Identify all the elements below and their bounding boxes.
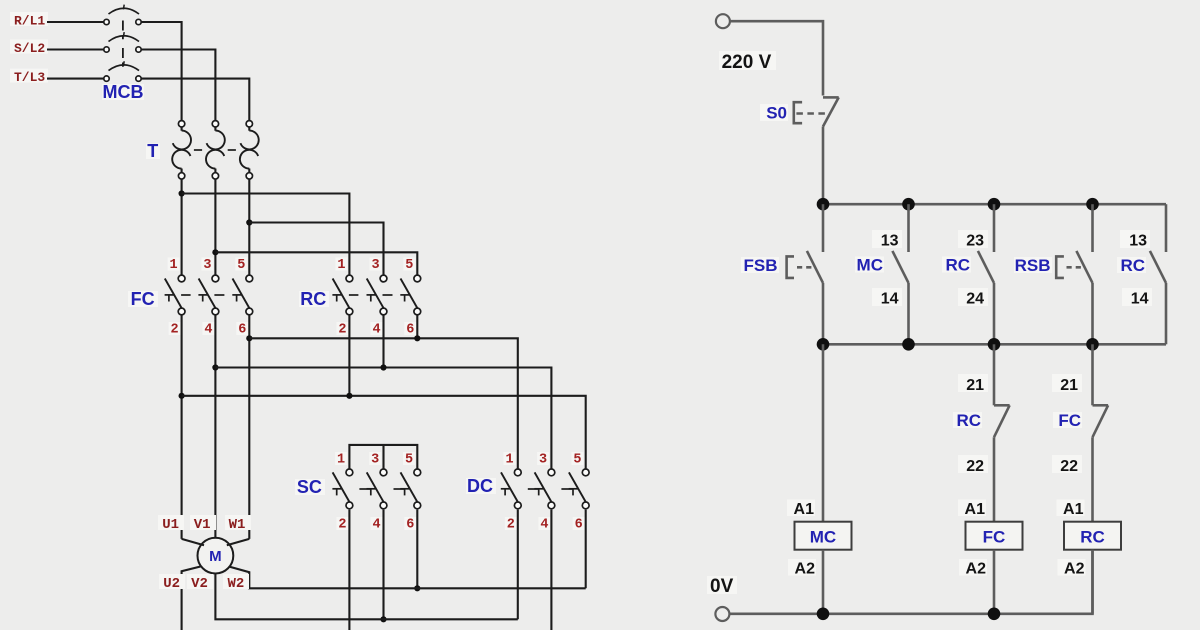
delta contactor DC label (466, 478, 496, 494)
node bus1 RSB (1086, 198, 1099, 211)
pin label A1 (RC) (1057, 500, 1085, 517)
wire auxiliary contact RC 13-14 lower (1165, 283, 1168, 344)
contactor DC pole 2 actuator tick (534, 488, 543, 490)
wire T/L3 MCB output (141, 79, 249, 121)
wire phase 3 down to FC pole 3 (248, 179, 250, 275)
overload relay T label (146, 144, 160, 160)
wire push button FSB upper (822, 204, 825, 252)
node junction phase2/RC feed (212, 249, 218, 255)
overload T pole 2 element (214, 127, 216, 131)
svg-text:6: 6 (238, 323, 246, 338)
MCB pole 3 terminals (104, 76, 109, 81)
contact number 6 (DC) (573, 517, 585, 530)
svg-text:A1: A1 (1063, 501, 1084, 518)
wire control bus 2 (823, 343, 1166, 346)
svg-text:A1: A1 (965, 501, 986, 518)
pin label 22 (FC 21-22) (1052, 455, 1082, 473)
svg-text:T/L3: T/L3 (14, 70, 45, 85)
auxiliary contact RC 13-14 NO blade (1150, 251, 1166, 283)
pin label 13 (RC latch) (1120, 230, 1150, 248)
wire RC pole3 output (416, 315, 418, 338)
contactor RC pole 2 blade (367, 279, 384, 309)
contact number 5 (RC) (403, 258, 415, 271)
contactor RC pole 2 top terminal (380, 275, 387, 282)
svg-text:24: 24 (966, 291, 984, 308)
svg-text:V1: V1 (194, 517, 211, 533)
contactor RC pole 3 actuator tick (400, 294, 409, 296)
contactor FC pole 3 actuator tick (232, 294, 241, 296)
wire R/L1 MCB output (141, 22, 181, 121)
wire coil RC to bottom bus (1091, 550, 1094, 614)
node RC4 row junction (380, 364, 386, 370)
star contactor SC label (295, 479, 325, 495)
pin label 14 (RC latch) (1122, 288, 1152, 306)
contactor FC pole 1 blade (165, 279, 182, 309)
wire SC pole1 output down (348, 510, 350, 630)
contactor DC pole 3 top terminal (582, 469, 589, 476)
overload T pole 2 top terminal (212, 121, 218, 127)
svg-text:13: 13 (881, 233, 899, 250)
svg-text:3: 3 (203, 258, 211, 273)
contactor FC pole 1 actuator tick (165, 294, 174, 296)
node bus2 MC coil (817, 338, 830, 351)
node bus2 MC aux (902, 338, 915, 351)
node RC6 row junction (414, 335, 420, 341)
node bottom bus MC (817, 608, 830, 621)
wire DC pole3 output down (585, 510, 587, 589)
wire motor V2 row (215, 574, 517, 620)
wire FC pole3 output to motor W1 (248, 315, 250, 539)
svg-text:FC: FC (1058, 411, 1081, 430)
overload T pole 1 bottom terminal (181, 169, 183, 173)
auxiliary contact RC latch label (1117, 257, 1146, 273)
stop button S0 actuator link dashes (796, 112, 827, 115)
contact number 4 (SC) (371, 517, 383, 530)
wire auxiliary contact MC 13-14 lower (907, 283, 910, 344)
wire auxiliary contact MC 13-14 upper (907, 204, 910, 252)
push button RSB actuator bracket (1056, 256, 1064, 278)
contact number 6 (RC) (404, 322, 416, 335)
svg-text:S0: S0 (766, 104, 787, 123)
stop button S0 label (760, 104, 788, 121)
stop button S0 actuator bracket (794, 102, 802, 123)
contactor SC pole 2 blade (367, 472, 384, 502)
node junction phase1/RC feed (179, 190, 185, 196)
svg-text:RSB: RSB (1015, 256, 1051, 275)
contactor SC pole 1 top terminal (346, 469, 353, 476)
contact number 3 (SC) (369, 452, 381, 465)
svg-text:S/L2: S/L2 (14, 41, 45, 56)
MCB pole 1 arc (109, 8, 140, 14)
wire phase2 to RC pole 3 (215, 252, 417, 275)
terminal 0V (715, 607, 729, 621)
svg-text:A2: A2 (1064, 561, 1085, 578)
node bus2 FC branch (988, 338, 1001, 351)
interlock FC 21-22 NC contact (1093, 404, 1109, 407)
contact number 3 (RC) (370, 258, 382, 271)
wire auxiliary contact RC 23-24 upper (993, 204, 996, 252)
contactor FC pole 1 top terminal (178, 275, 185, 282)
wire T/L3 to MCB (47, 78, 104, 80)
pin label 13 (MC) (872, 230, 902, 248)
wire bus2 to FC 21-22 (1091, 344, 1094, 405)
SC mechanical link dashes (359, 488, 370, 490)
svg-text:RC: RC (956, 411, 981, 430)
wire auxiliary contact RC 23-24 lower (993, 283, 996, 344)
wire auxiliary contact RC 13-14 upper (1165, 204, 1168, 252)
svg-text:RC: RC (300, 289, 326, 309)
coil RC box (1064, 522, 1121, 550)
contact number 2 (DC) (505, 517, 517, 530)
node junction phase3/RC feed (246, 219, 252, 225)
svg-text:22: 22 (966, 458, 984, 475)
svg-text:220 V: 220 V (722, 52, 772, 73)
svg-text:0V: 0V (710, 576, 734, 597)
wire phase 1 down to FC pole 1 (181, 179, 183, 275)
wire bus2 to RC 21-22 (993, 344, 996, 405)
svg-text:2: 2 (507, 518, 515, 533)
wire DC pole2 output down (550, 510, 552, 630)
contactor SC pole 2 actuator tick (367, 488, 376, 490)
contactor SC pole 1 actuator tick (332, 488, 341, 490)
auxiliary contact RC label (942, 257, 971, 273)
contactor DC pole 1 top terminal (514, 469, 521, 476)
overload T pole 3 element (248, 127, 250, 131)
svg-text:2: 2 (338, 323, 346, 338)
wire phase 2 down to FC pole 2 (214, 179, 216, 275)
contactor RC pole 1 blade (333, 279, 350, 309)
svg-text:V2: V2 (191, 576, 208, 592)
contactor DC pole 2 top terminal (548, 469, 555, 476)
svg-text:4: 4 (372, 518, 380, 533)
motor terminal label V2 (187, 574, 213, 589)
svg-text:T: T (147, 141, 158, 161)
motor stub U1 (182, 539, 204, 545)
label T/L3 phase input (10, 69, 48, 83)
contactor RC pole 2 actuator tick (367, 294, 376, 296)
contactor FC pole 2 blade (199, 279, 216, 309)
overload T pole 3 bottom terminal (248, 169, 250, 173)
contactor RC pole 3 bottom terminal (414, 308, 421, 315)
contactor SC pole 2 bottom terminal (380, 502, 387, 509)
pin label A2 (MC) (788, 559, 816, 576)
label S/L2 phase input (10, 40, 48, 54)
svg-text:RC: RC (1080, 528, 1105, 547)
motor terminal label U2 (159, 574, 185, 589)
node bus1 RC (988, 198, 1001, 211)
push button RSB actuator dashes (1067, 266, 1082, 269)
node bus2 RC branch (1086, 338, 1099, 351)
contact number 6 (FC) (236, 322, 248, 335)
node SC6 joins W2 row (414, 585, 420, 591)
wire bottom bus 0V (729, 550, 1092, 614)
svg-text:23: 23 (966, 233, 984, 250)
contactor FC pole 3 blade (233, 279, 250, 309)
wire S0 to bus1 (822, 127, 825, 205)
svg-text:FC: FC (131, 289, 155, 309)
svg-text:4: 4 (204, 323, 212, 338)
contact number 1 (SC) (335, 452, 347, 465)
contactor SC pole 3 blade (401, 472, 418, 502)
wire S/L2 MCB output (141, 50, 215, 121)
svg-text:DC: DC (467, 476, 493, 496)
svg-text:W1: W1 (229, 517, 246, 533)
push button FSB label (741, 257, 779, 273)
wire push button RSB upper (1091, 204, 1094, 252)
MCB pole 2 terminals (104, 47, 109, 52)
label 0V (707, 576, 737, 594)
svg-text:6: 6 (575, 518, 583, 533)
wire row W-phase to DC pole 1 (249, 338, 518, 469)
reverse contactor RC label (299, 291, 329, 307)
node FC6 row junction (246, 335, 252, 341)
interlock FC 21-22 label (1053, 412, 1082, 428)
svg-text:A2: A2 (795, 561, 816, 578)
motor stub W1 (227, 539, 250, 545)
overload T pole 1 element (181, 127, 183, 131)
svg-text:MCB: MCB (103, 82, 144, 102)
svg-text:R/L1: R/L1 (14, 14, 45, 29)
contactor SC pole 1 bottom terminal (346, 502, 353, 509)
svg-text:W2: W2 (227, 576, 244, 592)
svg-text:RC: RC (945, 256, 970, 275)
contact number 1 (FC) (168, 258, 180, 271)
contactor FC pole 2 actuator tick (198, 294, 207, 296)
MCB mechanical link (dashed) (122, 21, 124, 40)
auxiliary contact RC 23-24 NO blade (978, 251, 994, 283)
wire row U-phase to DC pole 3 (182, 396, 586, 469)
svg-text:A2: A2 (966, 561, 987, 578)
FC mechanical link dashes (181, 294, 191, 296)
push button FSB actuator dashes (797, 266, 812, 269)
wire coil FC to bottom bus (993, 550, 996, 614)
pin label 22 (RC 21-22) (958, 455, 988, 473)
contactor RC pole 2 bottom terminal (380, 308, 387, 315)
svg-text:SC: SC (297, 477, 322, 497)
wire RC pole2 output (382, 315, 384, 368)
wire RC 21-22 to coil (993, 437, 996, 522)
svg-text:U2: U2 (163, 576, 180, 592)
contactor DC pole 3 blade (569, 472, 586, 502)
pin label 14 (MC) (872, 288, 902, 306)
coil MC box (795, 522, 852, 550)
pin label A2 (RC) (1058, 559, 1086, 576)
motor M body (198, 538, 234, 574)
svg-text:1: 1 (170, 258, 178, 273)
svg-text:5: 5 (405, 258, 413, 273)
contactor DC pole 3 bottom terminal (582, 502, 589, 509)
wire FC pole2 output to motor V1 (214, 315, 216, 538)
contact number 2 (SC) (336, 517, 348, 530)
pin label 24 (RC) (958, 288, 988, 306)
contactor DC pole 1 bottom terminal (514, 502, 521, 509)
pin label A1 (MC) (787, 500, 815, 517)
RC mechanical link dashes (349, 294, 359, 296)
svg-text:M: M (209, 548, 222, 565)
coil FC box (966, 522, 1023, 550)
DC mechanical link dashes (528, 488, 539, 490)
wire phase3 to RC pole 2 (249, 223, 383, 276)
MCB pole 1 terminals (104, 19, 109, 24)
svg-text:14: 14 (1131, 291, 1149, 308)
forward contactor FC label (128, 291, 158, 307)
contact number 4 (FC) (202, 322, 214, 335)
svg-text:5: 5 (405, 453, 413, 468)
svg-text:FSB: FSB (744, 256, 778, 275)
svg-text:4: 4 (372, 323, 380, 338)
contactor RC pole 3 blade (401, 279, 418, 309)
svg-text:A1: A1 (794, 501, 815, 518)
motor terminal label V1 (190, 515, 216, 530)
MCB pole 3 arc (109, 65, 140, 71)
svg-text:5: 5 (573, 453, 581, 468)
wire FC 21-22 to coil (1091, 437, 1094, 522)
svg-text:21: 21 (1060, 377, 1078, 394)
node SC4 joins V2 row (380, 616, 386, 622)
wire S/L2 to MCB (47, 48, 104, 50)
svg-text:FC: FC (983, 528, 1006, 547)
wire bus2 to MC coil (822, 344, 825, 521)
contactor RC pole 3 top terminal (414, 275, 421, 282)
overload T pole 1 top terminal (178, 121, 184, 127)
contact number 5 (SC) (403, 452, 415, 465)
wire R/L1 to MCB (47, 21, 104, 23)
wire row V-phase to DC pole 2 (215, 368, 551, 470)
wire control bus 1 (823, 203, 1166, 206)
push button FSB actuator bracket (787, 256, 794, 278)
node bottom bus FC (988, 608, 1001, 621)
contactor DC pole 2 bottom terminal (548, 502, 555, 509)
contact number 5 (DC) (571, 452, 583, 465)
wire DC pole1 output down (517, 510, 519, 620)
push button RSB label (1014, 257, 1052, 273)
overload T link dashes (194, 149, 202, 151)
svg-text:MC: MC (857, 256, 883, 275)
contact number 1 (RC) (335, 258, 347, 271)
contactor DC pole 3 actuator tick (569, 488, 578, 490)
contactor SC pole 2 top terminal (380, 469, 387, 476)
contactor FC pole 3 top terminal (246, 275, 253, 282)
svg-text:1: 1 (505, 453, 513, 468)
wire motor W2 row (227, 566, 586, 588)
wire SC pole2 output down (382, 510, 384, 620)
wire FC pole1 output to motor U1 (181, 315, 183, 539)
svg-text:1: 1 (337, 453, 345, 468)
svg-text:MC: MC (810, 528, 836, 547)
interlock RC 21-22 NC contact (994, 404, 1010, 407)
contactor RC pole 1 bottom terminal (346, 308, 353, 315)
contact number 2 (RC) (336, 322, 348, 335)
node FC2 row junction (179, 393, 185, 399)
circuit breaker MCB label (102, 84, 144, 100)
svg-text:22: 22 (1060, 458, 1078, 475)
svg-text:4: 4 (540, 518, 548, 533)
contactor SC pole 3 bottom terminal (414, 502, 421, 509)
svg-text:3: 3 (539, 453, 547, 468)
svg-text:6: 6 (406, 518, 414, 533)
contactor FC pole 2 top terminal (212, 275, 219, 282)
contact number 4 (DC) (538, 517, 550, 530)
contact number 2 (FC) (169, 322, 181, 335)
svg-text:21: 21 (966, 377, 984, 394)
motor terminal label W1 (225, 515, 251, 530)
wire phase1 to RC pole 1 (182, 194, 350, 276)
wire push button RSB lower (1091, 283, 1094, 344)
contactor SC pole 3 top terminal (414, 469, 421, 476)
svg-text:2: 2 (338, 518, 346, 533)
contact number 6 (SC) (404, 517, 416, 530)
auxiliary contact MC 13-14 NO blade (892, 251, 908, 283)
pin label 21 (FC 21-22) (1052, 374, 1082, 392)
contactor FC pole 2 bottom terminal (212, 308, 219, 315)
label R/L1 phase input (10, 12, 48, 26)
wire push button FSB lower (822, 283, 825, 344)
contact number 3 (FC) (201, 258, 213, 271)
overload T pole 2 bottom terminal (214, 169, 216, 173)
wire RC pole1 output (348, 315, 350, 396)
wire motor U2 lead (182, 566, 204, 630)
push button RSB NO blade (1076, 251, 1092, 283)
contactor DC pole 1 actuator tick (501, 488, 510, 490)
stop button S0 NC contact (823, 96, 839, 99)
contactor RC pole 1 actuator tick (332, 294, 341, 296)
contactor SC pole 1 blade (333, 472, 350, 502)
contactor DC pole 2 blade (535, 472, 552, 502)
auxiliary contact MC label (855, 257, 884, 273)
MCB pole 2 arc (109, 36, 140, 42)
motor terminal label U1 (158, 515, 184, 530)
svg-text:6: 6 (406, 323, 414, 338)
push button FSB NO blade (807, 251, 823, 283)
terminal 220V supply (716, 14, 730, 28)
contactor FC pole 1 bottom terminal (178, 308, 185, 315)
wire SC pole3 output down (416, 510, 418, 589)
svg-text:RC: RC (1120, 256, 1145, 275)
pin label 21 (RC 21-22) (958, 374, 988, 392)
node bus1 FSB (817, 198, 830, 211)
node FC4 row junction (212, 364, 218, 370)
svg-text:3: 3 (371, 453, 379, 468)
contact number 3 (DC) (537, 452, 549, 465)
contactor FC pole 3 bottom terminal (246, 308, 253, 315)
node RC2 row junction (346, 393, 352, 399)
pin label A2 (FC) (959, 559, 987, 576)
wire coil MC to bottom bus (822, 550, 825, 614)
motor terminal label W2 (223, 574, 249, 589)
pin label 23 (RC) (958, 230, 988, 248)
contactor DC pole 1 blade (501, 472, 518, 502)
contact number 4 (RC) (371, 322, 383, 335)
label 220 V (719, 51, 776, 70)
svg-text:2: 2 (171, 323, 179, 338)
contactor SC pole 3 actuator tick (400, 488, 409, 490)
node bus1 MC (902, 198, 915, 211)
svg-text:13: 13 (1129, 233, 1147, 250)
svg-text:3: 3 (371, 258, 379, 273)
wire SC star-point bracket (349, 445, 417, 469)
contact number 5 (FC) (235, 258, 247, 271)
contactor RC pole 1 top terminal (346, 275, 353, 282)
contact number 1 (DC) (504, 452, 516, 465)
svg-text:14: 14 (881, 291, 899, 308)
svg-text:5: 5 (237, 258, 245, 273)
overload T pole 3 top terminal (246, 121, 252, 127)
interlock RC 21-22 label (953, 412, 982, 428)
svg-text:U1: U1 (162, 517, 179, 533)
pin label A1 (FC) (958, 500, 986, 517)
wire 220V to S0 (730, 21, 823, 95)
svg-text:1: 1 (337, 258, 345, 273)
